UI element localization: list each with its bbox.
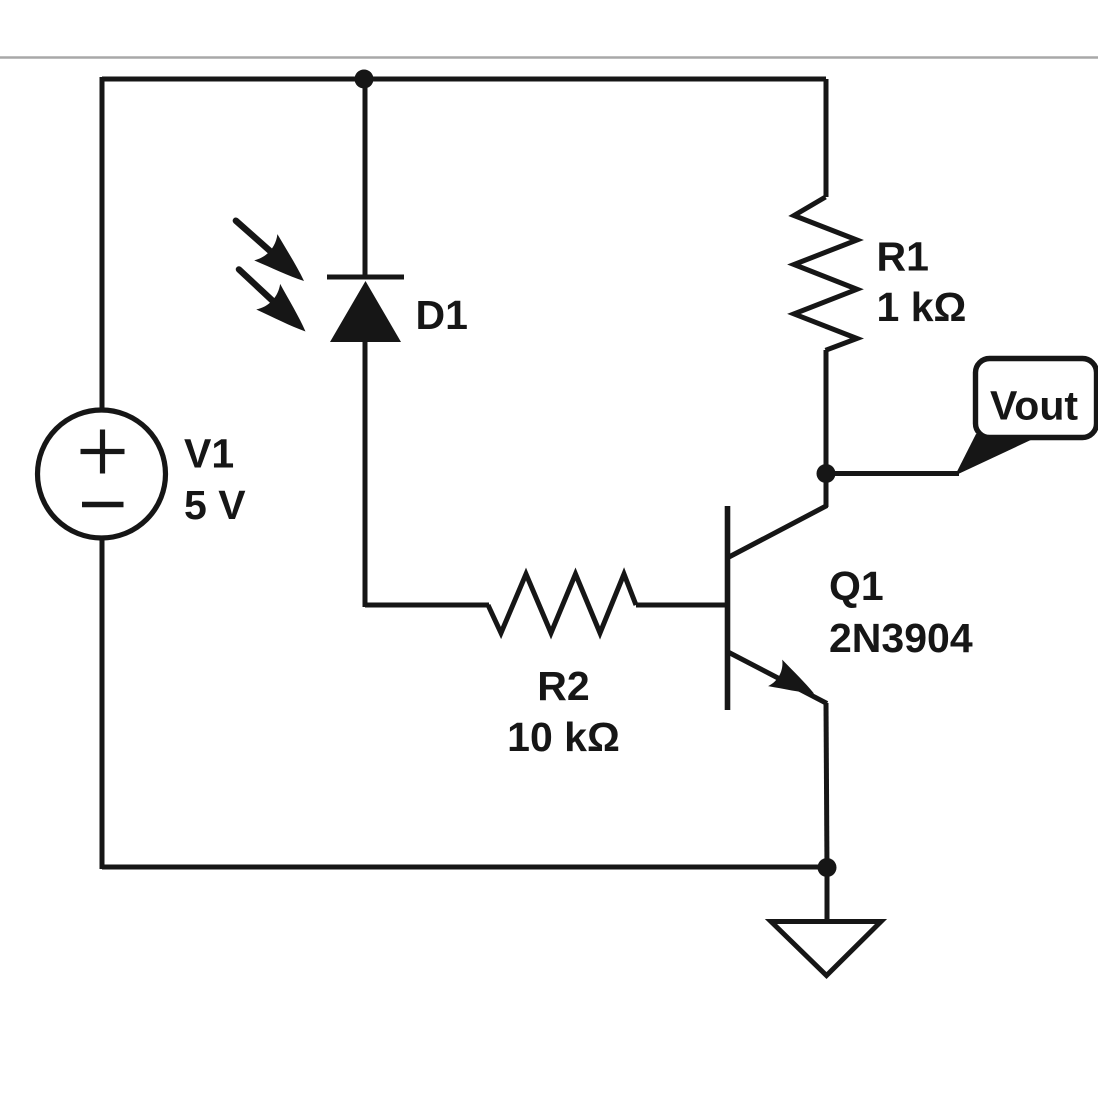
svg-text:R1: R1: [877, 233, 929, 279]
wire D1 branch upper: [363, 79, 368, 279]
transistor Q1 collector diagonal: [728, 506, 827, 558]
Vout callout tail: [955, 434, 1034, 476]
transistor Q1 base bar: [725, 506, 731, 710]
wire R1 to collector node: [824, 350, 829, 476]
voltage source V1 circle: [38, 410, 166, 538]
V1 minus sign: [82, 502, 124, 508]
top border rule: [0, 56, 1098, 58]
svg-text:Vout: Vout: [990, 382, 1078, 428]
wire to ground: [825, 867, 830, 922]
svg-text:V1: V1: [184, 431, 234, 477]
wire D1 branch lower: [363, 342, 368, 607]
transistor Q1 emitter arrowhead: [768, 660, 821, 707]
svg-text:D1: D1: [416, 292, 468, 338]
wire bottom rail: [102, 865, 827, 870]
svg-text:10 kΩ: 10 kΩ: [507, 714, 620, 760]
wire top rail: [102, 77, 826, 82]
node junction dot top: [355, 70, 374, 89]
wire base from R2: [636, 603, 727, 608]
wire R1 branch upper: [824, 79, 829, 197]
V1 plus sign: [81, 430, 125, 474]
node junction dot collector: [817, 464, 836, 483]
wire collector vertical: [824, 474, 829, 508]
wire emitter vertical: [826, 703, 827, 869]
svg-text:2N3904: 2N3904: [829, 615, 973, 661]
photodiode D1 cathode bar: [327, 275, 404, 280]
wire D1 to R2: [365, 603, 489, 608]
light arrow 1: [224, 208, 315, 295]
svg-text:Q1: Q1: [829, 563, 884, 609]
node junction dot emitter-ground: [818, 858, 837, 877]
Vout callout box: [976, 359, 1097, 438]
svg-text:R2: R2: [537, 663, 589, 709]
resistor R2 zigzag: [488, 574, 636, 633]
photodiode D1 triangle: [330, 281, 401, 342]
light arrow 2: [227, 257, 317, 345]
transistor Q1 emitter diagonal: [728, 652, 827, 704]
wire left rail lower: [100, 538, 105, 869]
ground symbol: [771, 922, 881, 976]
wire collector node to Vout: [826, 471, 959, 476]
wire left rail upper: [100, 77, 105, 410]
svg-text:1 kΩ: 1 kΩ: [877, 284, 967, 330]
resistor R1 zigzag: [794, 197, 857, 350]
svg-text:5 V: 5 V: [184, 482, 246, 528]
